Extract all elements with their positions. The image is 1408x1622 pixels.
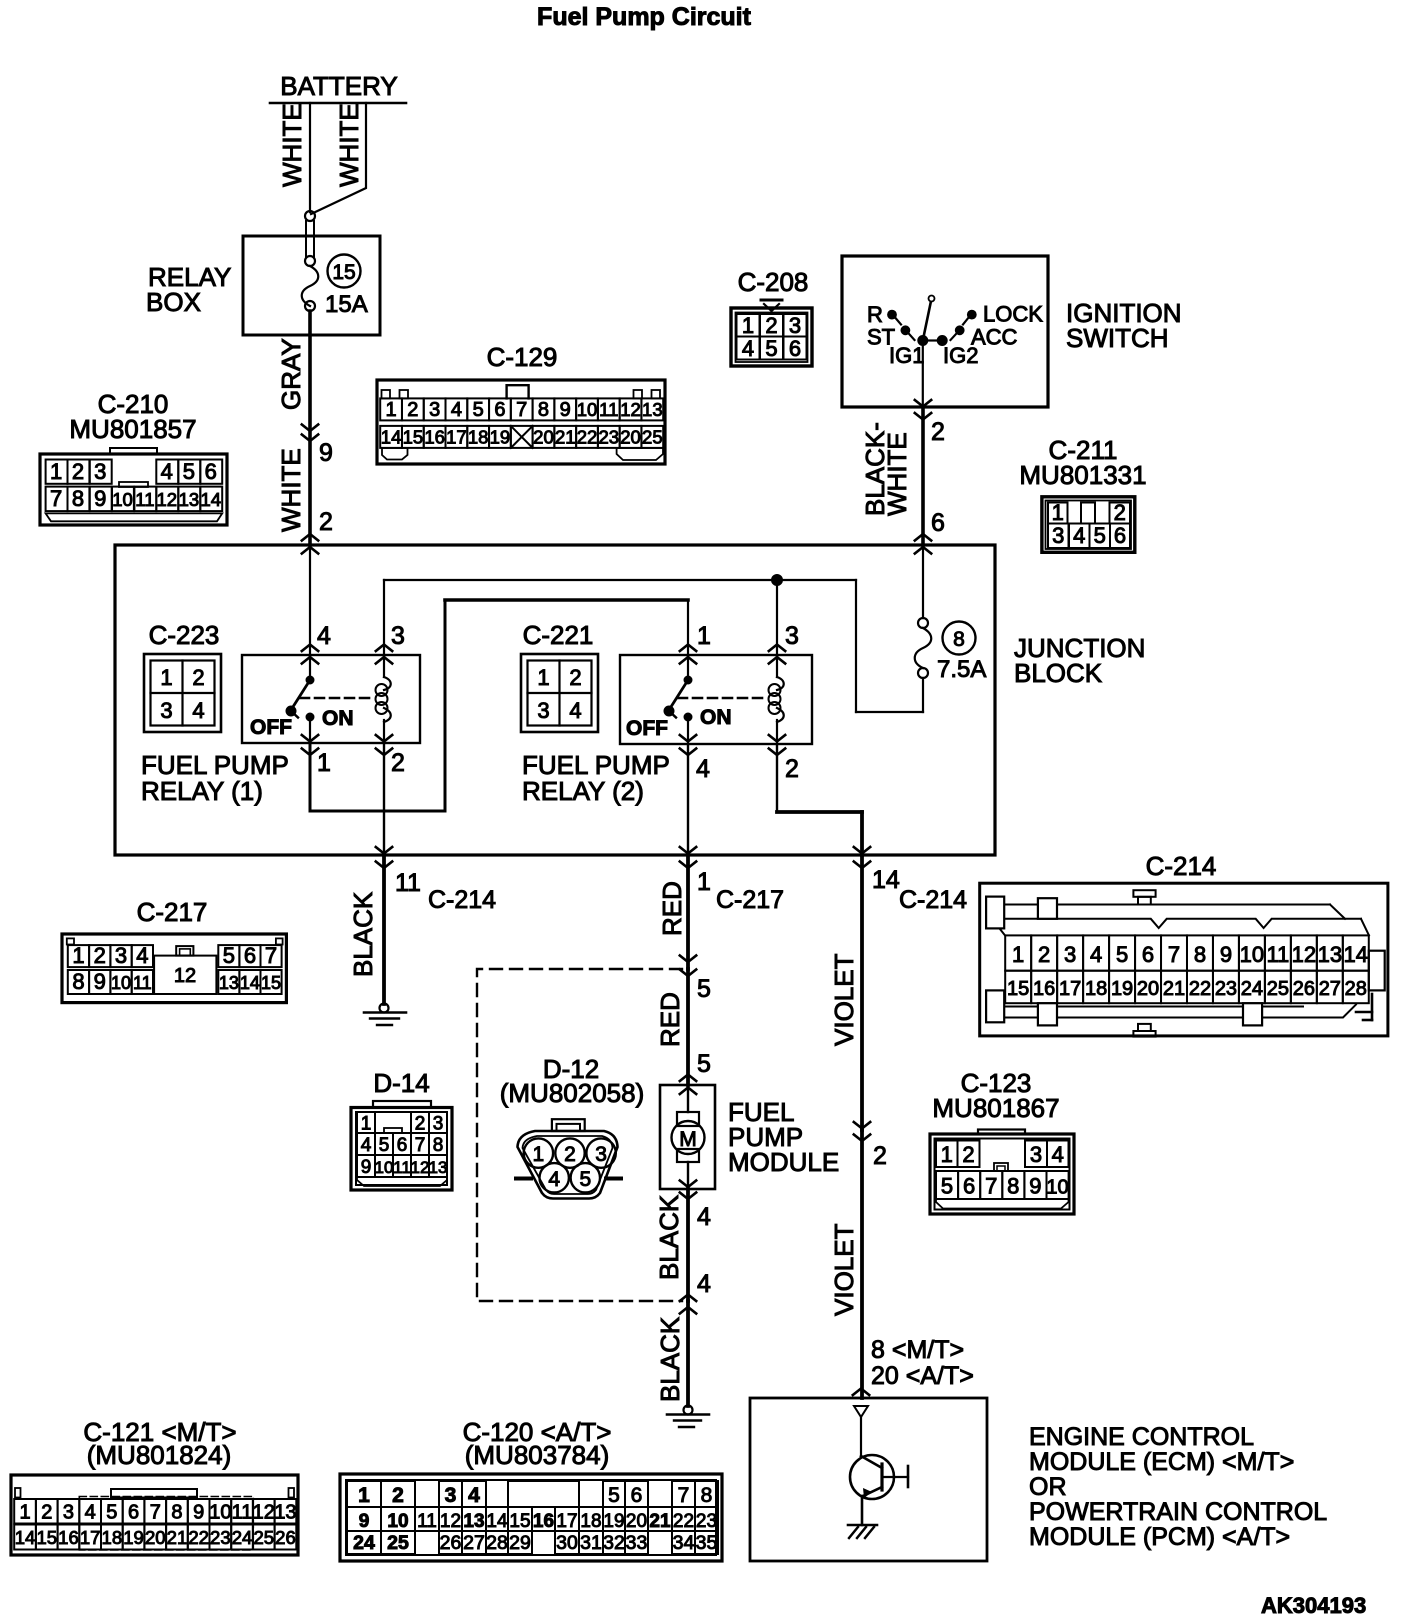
svg-text:20: 20 [145, 1527, 166, 1548]
engine control module box [750, 1398, 1327, 1561]
svg-text:M: M [679, 1128, 697, 1151]
svg-text:7.5A: 7.5A [937, 656, 986, 683]
svg-text:BATTERY: BATTERY [280, 71, 398, 101]
svg-text:22: 22 [673, 1511, 694, 1532]
relay1 pin 3 crossing [376, 622, 405, 664]
svg-text:6: 6 [244, 943, 256, 968]
svg-text:12: 12 [253, 1502, 275, 1524]
svg-text:15: 15 [1007, 978, 1029, 1000]
svg-text:10: 10 [375, 1158, 394, 1177]
svg-text:OR: OR [1029, 1473, 1067, 1501]
svg-text:5: 5 [106, 1502, 117, 1524]
svg-text:25: 25 [387, 1532, 409, 1554]
svg-text:RED: RED [657, 881, 687, 936]
svg-text:8: 8 [538, 399, 549, 421]
svg-text:11: 11 [395, 869, 421, 897]
svg-text:8: 8 [953, 628, 965, 651]
svg-text:1: 1 [1052, 500, 1064, 525]
svg-text:17: 17 [556, 1511, 577, 1532]
svg-text:BLACK: BLACK [655, 1316, 685, 1402]
fuel pump relay (2) box [522, 655, 812, 806]
svg-text:ENGINE CONTROL: ENGINE CONTROL [1029, 1423, 1254, 1451]
svg-text:17: 17 [1059, 978, 1081, 1000]
wire: relay2 pin2 to violet exit [777, 744, 862, 855]
junction block [115, 545, 1145, 855]
wire: relay2 pin4 to junction bottom [687, 744, 689, 855]
svg-text:13: 13 [179, 489, 200, 510]
svg-text:C-217: C-217 [137, 897, 208, 927]
svg-text:1: 1 [742, 313, 754, 338]
svg-text:POWERTRAIN CONTROL: POWERTRAIN CONTROL [1029, 1498, 1327, 1526]
svg-text:5: 5 [1094, 523, 1106, 548]
svg-text:5: 5 [579, 1168, 591, 1191]
svg-text:WHITE: WHITE [882, 432, 912, 516]
fuel pump relay (1) box [141, 655, 420, 806]
fuel pump module crossing top [680, 1075, 696, 1095]
relay1 pin 4 crossing [302, 622, 331, 664]
connector C-223 [144, 620, 221, 732]
svg-text:4: 4 [1073, 523, 1085, 548]
svg-text:6: 6 [931, 509, 945, 537]
svg-text:ON: ON [700, 706, 732, 729]
svg-text:23: 23 [1215, 978, 1237, 1000]
connector D-12 (MU802058) [500, 1054, 645, 1199]
svg-text:IG1: IG1 [889, 343, 924, 368]
svg-text:3: 3 [63, 1502, 74, 1524]
svg-text:SWITCH: SWITCH [1066, 323, 1169, 353]
ground: fuel pump BLACK wire [667, 1406, 709, 1428]
svg-text:6: 6 [1142, 942, 1154, 967]
svg-text:28: 28 [1345, 978, 1367, 1000]
svg-text:3: 3 [537, 698, 549, 723]
svg-text:2: 2 [873, 1142, 887, 1170]
connector C-208 [731, 267, 812, 366]
svg-text:14: 14 [240, 973, 260, 993]
svg-text:C-129: C-129 [487, 342, 558, 372]
svg-text:12: 12 [411, 1158, 430, 1177]
ground: BLACK wire [364, 1004, 406, 1026]
connector C-221 [521, 620, 598, 732]
svg-text:1: 1 [50, 459, 62, 484]
svg-text:RELAY (1): RELAY (1) [141, 776, 263, 806]
relay1 coil [376, 655, 391, 743]
battery [270, 71, 406, 103]
svg-text:OFF: OFF [250, 716, 292, 739]
svg-text:5: 5 [608, 1484, 620, 1507]
svg-text:3: 3 [445, 1484, 457, 1507]
svg-text:7: 7 [415, 1135, 426, 1156]
fuel pump module box [660, 1085, 839, 1189]
svg-text:22: 22 [188, 1527, 209, 1548]
svg-text:6: 6 [963, 1174, 975, 1199]
relay2 dashed link [678, 697, 767, 700]
svg-text:18: 18 [102, 1527, 123, 1548]
svg-text:14: 14 [486, 1511, 508, 1532]
svg-text:2: 2 [391, 749, 405, 777]
wire: BLACK to ground 2 [655, 1301, 688, 1406]
svg-text:AK304193: AK304193 [1261, 1593, 1366, 1618]
wire: coil bus y=580 (relay1 pin3 to fuse path) [384, 580, 856, 655]
svg-text:6: 6 [494, 399, 505, 421]
svg-text:17: 17 [446, 427, 467, 448]
svg-text:IG2: IG2 [943, 343, 978, 368]
svg-text:WHITE: WHITE [277, 103, 307, 187]
svg-text:8: 8 [433, 1135, 444, 1156]
svg-text:4: 4 [569, 698, 581, 723]
wire: battery left feed (WHITE) [277, 103, 310, 212]
svg-text:C-217: C-217 [716, 886, 784, 914]
svg-text:4: 4 [85, 1502, 96, 1524]
svg-text:3: 3 [789, 313, 801, 338]
svg-text:11: 11 [135, 489, 154, 510]
svg-text:12: 12 [440, 1511, 461, 1532]
svg-text:1: 1 [72, 943, 84, 968]
wire: VIOLET lower [829, 1130, 974, 1398]
svg-text:27: 27 [1319, 978, 1341, 1000]
svg-text:18: 18 [580, 1511, 601, 1532]
wire: junction top to relay 1 pin 4 [309, 545, 311, 655]
relay1 switch [250, 655, 354, 743]
svg-text:1: 1 [386, 399, 397, 421]
junction block entry pin 2 crossing [302, 508, 333, 554]
svg-text:5: 5 [183, 459, 195, 484]
relay2 pin 1 crossing [680, 622, 711, 664]
wire: RED inside assembly [655, 969, 711, 1085]
svg-text:3: 3 [1064, 942, 1076, 967]
dashed crossing into pump assembly [680, 956, 711, 1004]
svg-text:8: 8 [1194, 942, 1206, 967]
svg-text:6: 6 [631, 1484, 643, 1507]
fuse 7.5A (no.8) in junction block [915, 618, 987, 683]
svg-text:2: 2 [962, 1142, 974, 1167]
svg-text:7: 7 [265, 943, 277, 968]
svg-text:14: 14 [201, 489, 222, 510]
svg-text:LOCK: LOCK [983, 302, 1043, 327]
svg-text:3: 3 [433, 1114, 444, 1135]
svg-text:9: 9 [193, 1502, 204, 1524]
part number AK304193 [1261, 1593, 1366, 1618]
svg-text:7: 7 [678, 1484, 690, 1507]
svg-text:4: 4 [1052, 1142, 1064, 1167]
svg-text:3: 3 [595, 1143, 607, 1166]
svg-text:16: 16 [1033, 978, 1055, 1000]
svg-text:23: 23 [210, 1527, 231, 1548]
svg-text:2: 2 [392, 1484, 404, 1507]
svg-text:2: 2 [94, 943, 106, 968]
svg-text:14: 14 [381, 427, 402, 448]
svg-text:D-14: D-14 [373, 1068, 429, 1098]
svg-text:3: 3 [391, 622, 405, 650]
svg-text:22: 22 [1189, 978, 1211, 1000]
svg-text:6: 6 [1114, 523, 1126, 548]
svg-text:14: 14 [1344, 942, 1368, 967]
svg-text:20: 20 [533, 427, 554, 448]
svg-text:31: 31 [580, 1532, 602, 1554]
junction exit pin 1 crossing (RED) [680, 847, 784, 914]
svg-text:14: 14 [15, 1527, 36, 1548]
svg-text:25: 25 [642, 427, 663, 448]
svg-text:9: 9 [94, 486, 106, 511]
svg-text:10: 10 [209, 1502, 231, 1524]
svg-text:4: 4 [696, 755, 710, 783]
relay1 dashed link [300, 697, 374, 700]
wire: relay1 pin1 to relay2 pin1 feed [310, 600, 688, 811]
svg-text:18: 18 [468, 427, 489, 448]
svg-text:4: 4 [697, 1270, 711, 1298]
svg-text:2: 2 [407, 399, 418, 421]
svg-text:10: 10 [1046, 1177, 1068, 1199]
svg-text:5: 5 [765, 336, 777, 361]
svg-text:OFF: OFF [626, 717, 668, 740]
svg-text:5: 5 [697, 1050, 711, 1078]
svg-text:5: 5 [379, 1135, 390, 1156]
svg-text:32: 32 [603, 1532, 625, 1554]
svg-text:13: 13 [463, 1511, 484, 1532]
svg-text:1: 1 [19, 1502, 30, 1524]
svg-text:10: 10 [111, 973, 131, 993]
transistor Q (ECM driver) [850, 1455, 908, 1499]
svg-text:1: 1 [941, 1142, 953, 1167]
svg-text:C-214: C-214 [428, 886, 496, 914]
svg-text:8: 8 [72, 486, 84, 511]
inline connector C-129 pin 9 crossing on wire [302, 425, 333, 468]
relay2 pin 2 crossing [769, 735, 799, 783]
svg-text:4: 4 [548, 1168, 560, 1191]
svg-text:6: 6 [205, 459, 217, 484]
svg-text:2: 2 [1114, 500, 1126, 525]
svg-text:13: 13 [642, 399, 663, 420]
svg-text:4: 4 [317, 622, 331, 650]
svg-text:3: 3 [429, 399, 440, 421]
relay box [146, 236, 380, 335]
svg-text:C-214: C-214 [1146, 851, 1217, 881]
svg-text:5: 5 [223, 943, 235, 968]
svg-text:Fuel Pump Circuit: Fuel Pump Circuit [537, 3, 752, 31]
svg-text:9: 9 [319, 439, 333, 467]
svg-text:MODULE (ECM) <M/T>: MODULE (ECM) <M/T> [1029, 1448, 1294, 1476]
svg-text:4: 4 [1090, 942, 1102, 967]
svg-text:MODULE: MODULE [728, 1147, 839, 1177]
svg-text:33: 33 [626, 1532, 648, 1554]
svg-text:21: 21 [555, 427, 576, 448]
svg-text:21: 21 [167, 1527, 188, 1548]
title: Fuel Pump Circuit [537, 3, 752, 31]
wire: battery right feed (WHITE) [311, 103, 366, 214]
svg-text:2: 2 [765, 313, 777, 338]
relay1 pin 2 crossing [376, 735, 405, 777]
inline connector above relay box [305, 211, 315, 266]
connector C-121 (M/T) MU801824 [11, 1417, 298, 1555]
relay2 pin 4 crossing [680, 735, 710, 783]
svg-text:2: 2 [415, 1114, 426, 1135]
svg-text:20 <A/T>: 20 <A/T> [871, 1362, 974, 1390]
svg-text:VIOLET: VIOLET [829, 953, 859, 1046]
svg-text:C-223: C-223 [149, 620, 220, 650]
svg-text:9: 9 [361, 1157, 372, 1178]
svg-text:MODULE (PCM) <A/T>: MODULE (PCM) <A/T> [1029, 1523, 1290, 1551]
svg-text:15: 15 [403, 427, 424, 448]
ECM entry chevron [853, 1389, 869, 1396]
svg-text:2: 2 [1038, 942, 1050, 967]
svg-text:17: 17 [80, 1527, 101, 1548]
svg-text:20: 20 [626, 1511, 647, 1532]
svg-text:6: 6 [128, 1502, 139, 1524]
svg-text:11: 11 [133, 973, 152, 993]
wire: relay box to junction block (GRAY/WHITE) [276, 311, 310, 545]
svg-text:2: 2 [41, 1502, 52, 1524]
svg-text:7: 7 [985, 1174, 997, 1199]
svg-text:3: 3 [1052, 523, 1064, 548]
svg-text:3: 3 [94, 459, 106, 484]
svg-text:RED: RED [655, 992, 685, 1047]
svg-text:24: 24 [232, 1527, 253, 1548]
svg-text:10: 10 [577, 399, 598, 420]
svg-text:22: 22 [577, 427, 598, 448]
svg-text:6: 6 [397, 1135, 408, 1156]
svg-text:10: 10 [1240, 942, 1264, 967]
svg-text:MU801857: MU801857 [69, 414, 196, 444]
svg-text:1: 1 [697, 622, 711, 650]
svg-text:4: 4 [742, 336, 754, 361]
svg-text:11: 11 [1266, 942, 1289, 967]
svg-text:3: 3 [160, 698, 172, 723]
svg-text:BOX: BOX [146, 287, 201, 317]
svg-text:7: 7 [1168, 942, 1180, 967]
svg-text:C-221: C-221 [523, 620, 594, 650]
svg-text:C-208: C-208 [738, 267, 809, 297]
svg-text:6: 6 [789, 336, 801, 361]
svg-text:2: 2 [785, 755, 799, 783]
svg-text:WHITE: WHITE [276, 448, 306, 532]
svg-text:ON: ON [322, 707, 354, 730]
relay2 switch [626, 655, 732, 744]
svg-text:1: 1 [160, 665, 172, 690]
svg-text:8: 8 [1007, 1174, 1019, 1199]
svg-text:2: 2 [72, 459, 84, 484]
svg-text:20: 20 [620, 427, 641, 448]
svg-text:1: 1 [358, 1484, 370, 1507]
svg-text:16: 16 [58, 1527, 79, 1548]
relay2 pin 3 crossing [769, 622, 799, 664]
ignition switch contacts and lever [867, 296, 1043, 408]
svg-text:5: 5 [697, 975, 711, 1003]
junction exit pin 14 crossing (VIOLET) [854, 847, 967, 914]
svg-text:28: 28 [486, 1532, 508, 1554]
svg-text:19: 19 [1111, 978, 1133, 1000]
svg-text:24: 24 [1241, 978, 1263, 1000]
inline crossing on VIOLET [854, 1122, 887, 1170]
svg-text:(MU802058): (MU802058) [500, 1078, 645, 1108]
svg-text:WHITE: WHITE [334, 103, 364, 187]
svg-text:25: 25 [1267, 978, 1289, 1000]
connector C-210 MU801857 [40, 389, 227, 525]
svg-text:BLOCK: BLOCK [1014, 658, 1103, 688]
connector C-129 [377, 342, 665, 464]
svg-text:5: 5 [1116, 942, 1128, 967]
svg-text:8: 8 [72, 969, 84, 994]
svg-text:R: R [867, 302, 883, 327]
junction exit pin 11 crossing (BLACK) [376, 847, 496, 914]
svg-text:15: 15 [509, 1511, 530, 1532]
svg-text:19: 19 [490, 427, 511, 448]
svg-text:2: 2 [564, 1143, 576, 1166]
svg-text:MU801331: MU801331 [1019, 460, 1146, 490]
svg-text:1: 1 [697, 868, 711, 896]
svg-text:3: 3 [785, 622, 799, 650]
svg-text:14: 14 [872, 866, 900, 894]
svg-text:13: 13 [219, 973, 239, 993]
svg-text:VIOLET: VIOLET [829, 1223, 859, 1316]
svg-text:7: 7 [516, 399, 527, 421]
svg-text:1: 1 [537, 665, 549, 690]
dashed box: fuel pump assembly [477, 969, 682, 1301]
svg-text:4: 4 [451, 399, 462, 421]
svg-text:5: 5 [941, 1174, 953, 1199]
svg-text:5: 5 [473, 399, 484, 421]
svg-text:9: 9 [359, 1511, 370, 1532]
svg-text:10: 10 [387, 1511, 408, 1532]
wire: relay1 pin2 to junction bottom [383, 744, 385, 855]
svg-text:7: 7 [50, 486, 62, 511]
node: junction dot above relay2 coil [772, 575, 783, 586]
svg-text:35: 35 [696, 1532, 718, 1554]
connector C-217 [62, 897, 286, 1003]
svg-text:16: 16 [533, 1511, 554, 1532]
wire: BLACK inside assembly [654, 1189, 711, 1301]
svg-text:21: 21 [649, 1511, 671, 1532]
svg-text:8 <M/T>: 8 <M/T> [871, 1336, 964, 1364]
connector D-14 [351, 1068, 452, 1190]
fuse 15A (no.15) in relay box [302, 255, 368, 319]
svg-text:12: 12 [174, 965, 196, 987]
svg-text:7: 7 [150, 1502, 161, 1524]
svg-text:24: 24 [353, 1532, 375, 1554]
svg-text:4: 4 [361, 1135, 372, 1156]
svg-text:13: 13 [274, 1502, 296, 1524]
svg-text:4: 4 [161, 459, 173, 484]
svg-text:29: 29 [509, 1532, 531, 1554]
svg-text:3: 3 [115, 943, 127, 968]
svg-text:MU801867: MU801867 [932, 1093, 1059, 1123]
svg-text:3: 3 [1030, 1142, 1042, 1167]
svg-text:11: 11 [232, 1502, 253, 1524]
wire: ignition switch to junction block (BLACK-WHITE) [860, 400, 945, 554]
svg-text:(MU801824): (MU801824) [87, 1440, 232, 1470]
connector C-214 [980, 851, 1388, 1037]
svg-text:12: 12 [157, 489, 178, 510]
svg-text:13: 13 [1318, 942, 1342, 967]
svg-text:13: 13 [429, 1158, 448, 1177]
svg-text:C-214: C-214 [899, 886, 967, 914]
ignition switch box [842, 256, 1182, 407]
wire: fuse 7.5A branch [856, 545, 923, 712]
svg-text:9: 9 [1220, 942, 1232, 967]
svg-text:15: 15 [36, 1527, 57, 1548]
svg-text:23: 23 [598, 427, 619, 448]
dashed crossing out of pump assembly [680, 1295, 696, 1314]
svg-text:23: 23 [696, 1511, 717, 1532]
svg-text:4: 4 [192, 698, 204, 723]
svg-text:1: 1 [317, 749, 331, 777]
ECM input terminal triangle [854, 1406, 868, 1455]
svg-text:11: 11 [599, 399, 618, 420]
svg-text:26: 26 [440, 1532, 462, 1554]
svg-text:RELAY (2): RELAY (2) [522, 776, 644, 806]
svg-text:2: 2 [319, 508, 333, 536]
svg-text:4: 4 [468, 1484, 480, 1507]
svg-text:GRAY: GRAY [276, 338, 306, 410]
svg-text:9: 9 [560, 399, 571, 421]
